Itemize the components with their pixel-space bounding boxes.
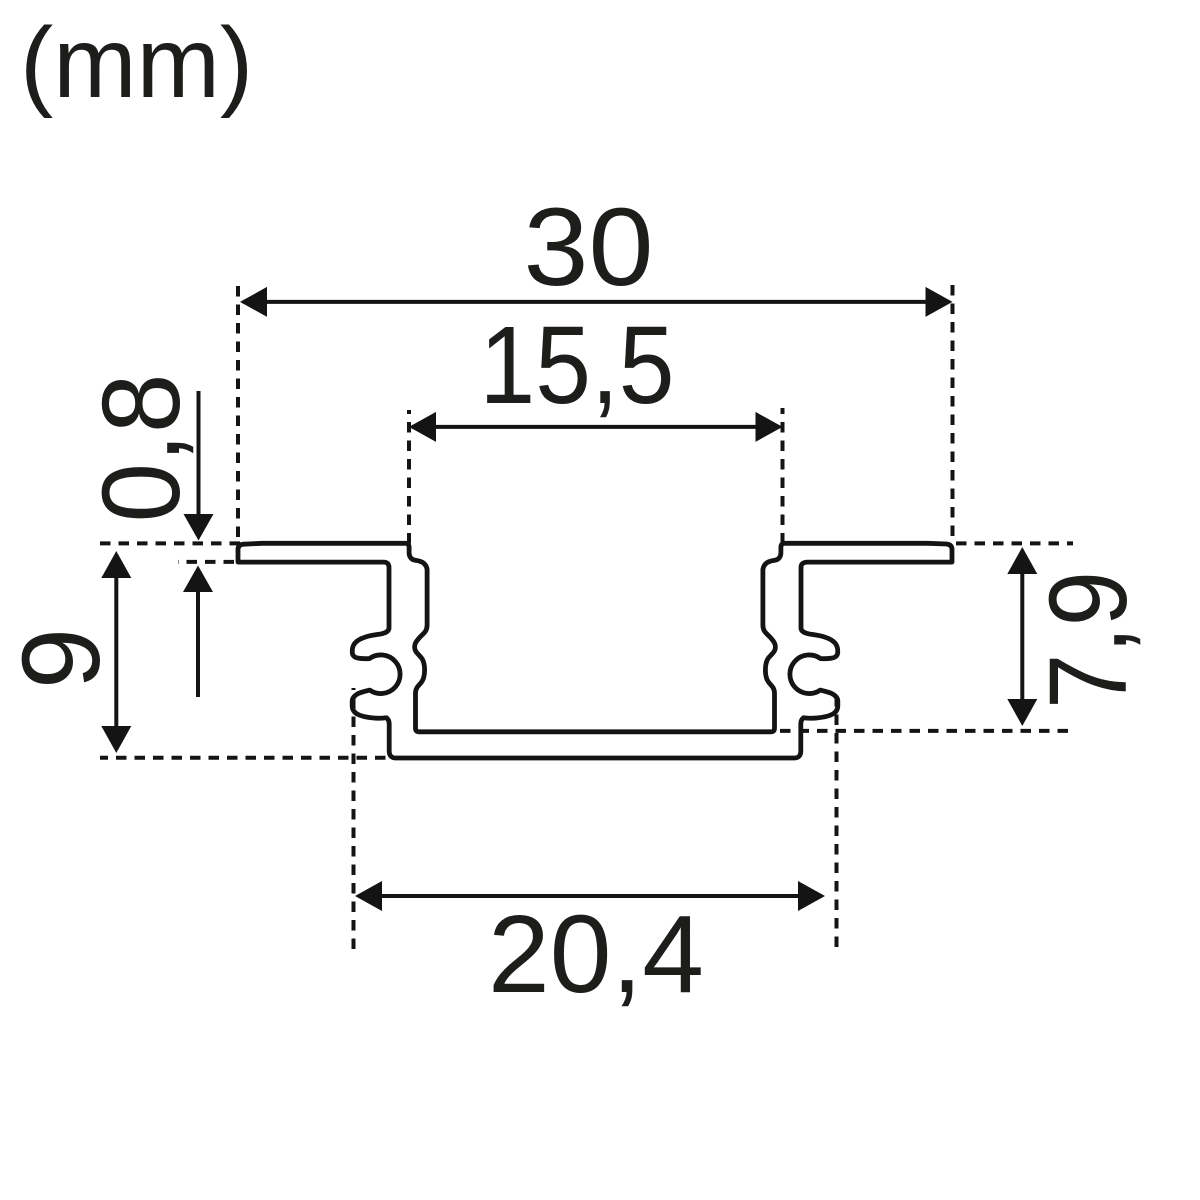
dimension 0,8 lower arrow (pointing up) — [196, 591, 200, 697]
dimension 20,4 right arrowhead — [798, 881, 825, 911]
svg-text:(mm): (mm) — [20, 7, 253, 119]
svg-text:9: 9 — [0, 628, 123, 689]
dimension 0,8 upper arrow (pointing down) — [197, 391, 201, 515]
svg-text:7,9: 7,9 — [1027, 571, 1150, 709]
dimension 20,4 left arrowhead — [355, 881, 382, 911]
svg-text:20,4: 20,4 — [488, 893, 704, 1016]
extension dashed line right of 30 at x=952.5 — [951, 281, 955, 536]
dashed line channel floor top (right) y=730.9 — [780, 729, 1073, 733]
extension dashed line left of 20,4 at x=353.5 — [352, 688, 356, 949]
svg-text:15,5: 15,5 — [480, 304, 675, 427]
dashed line bottom of flange (left) y=561.9 — [178, 560, 234, 564]
dashed line top of flange (right) y=543.4 — [956, 541, 1073, 545]
dashed line bottom of profile (left) y=757.8 — [100, 756, 386, 760]
dimension 30 arrow line — [243, 300, 949, 304]
extension dashed line right of 15,5 at x=782.5 — [781, 408, 785, 544]
dimension 30 right arrowhead — [926, 287, 953, 317]
dimension 15,5 right arrowhead — [756, 412, 783, 442]
extension dashed line right of 20,4 at x=836.5 — [835, 691, 839, 947]
dimension 7,9 double arrow — [1020, 566, 1024, 707]
dimension 9 double arrow — [114, 570, 118, 734]
dimension 15,5 arrow line — [412, 425, 779, 429]
dimension 20,4 arrow line — [358, 894, 822, 898]
dashed line top of flange (left) y=543.4 — [99, 541, 240, 545]
svg-text:0,8: 0,8 — [80, 374, 203, 523]
dimension 30 left arrowhead — [240, 287, 267, 317]
extension dashed line left of 30 at x=238 — [236, 284, 240, 537]
extension dashed line left of 15,5 at x=409 — [407, 410, 411, 544]
svg-text:30: 30 — [524, 186, 654, 309]
dimension 15,5 left arrowhead — [409, 412, 436, 442]
profile cross-section outline — [238, 543, 952, 758]
